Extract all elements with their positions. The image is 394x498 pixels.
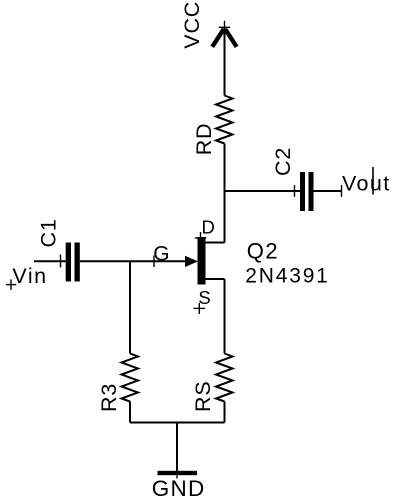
transistor Q2 channel bar [198, 237, 206, 285]
wire Vin to C1 [34, 260, 66, 262]
power symbol VCC arrow [212, 29, 236, 47]
text cursor mark [372, 167, 374, 195]
wire RS to rail [224, 402, 226, 423]
capacitor C1 [66, 243, 80, 282]
wire drain node to C2 [225, 190, 301, 192]
svg-text:2N4391: 2N4391 [245, 264, 329, 287]
wire gate node to R3 [129, 261, 131, 353]
node ground pin tick [176, 475, 178, 478]
wire rail to ground [176, 423, 178, 472]
wire RD to drain node [224, 144, 226, 243]
node Vin anchor cross [6, 280, 16, 290]
svg-text:Vout: Vout [342, 172, 391, 196]
svg-text:C2: C2 [271, 147, 295, 176]
svg-text:C1: C1 [36, 218, 60, 247]
svg-text:RS: RS [191, 381, 215, 412]
svg-text:RD: RD [192, 123, 216, 156]
wire bottom rail [130, 422, 225, 424]
resistor R3 [122, 354, 139, 402]
svg-text:GND: GND [152, 476, 206, 498]
svg-text:S: S [198, 287, 210, 308]
node C2 left pin tick [294, 185, 296, 197]
resistor RS [216, 354, 233, 402]
wire C1 to gate [80, 260, 186, 262]
wire C2 to Vout [314, 190, 342, 192]
resistor RD [216, 96, 233, 144]
wire VCC to RD [224, 28, 226, 96]
svg-text:VCC: VCC [180, 1, 204, 49]
node VCC pin cross [219, 21, 231, 32]
ground bar [158, 471, 198, 475]
svg-text:D: D [202, 217, 215, 238]
node gate pin tick [153, 256, 155, 268]
node Vout pin tick [341, 185, 343, 197]
wire source to RS [224, 279, 226, 354]
capacitor C2 [300, 172, 314, 211]
svg-text:R3: R3 [97, 383, 121, 412]
transistor Q2 gate arrow [185, 256, 198, 267]
wire R3 to rail [129, 402, 131, 423]
svg-text:Vin: Vin [12, 264, 47, 288]
pin D lead [206, 242, 225, 244]
pin S lead [206, 278, 225, 280]
pin D cross [195, 232, 206, 244]
svg-text:Q2: Q2 [247, 239, 279, 264]
node C1 left pin tick [60, 255, 62, 268]
pin S cross [194, 303, 205, 314]
